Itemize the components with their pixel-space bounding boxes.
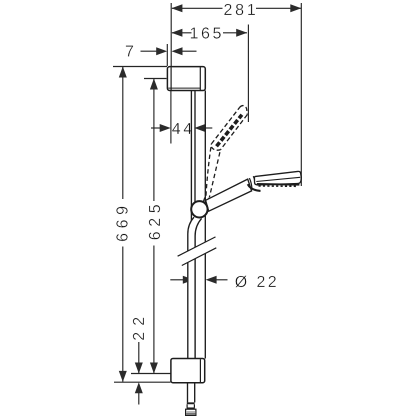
svg-text:669: 669 [115, 201, 132, 242]
svg-text:625: 625 [147, 200, 164, 241]
svg-text:281: 281 [223, 2, 258, 19]
svg-text:22: 22 [131, 311, 148, 341]
svg-text:Ø 22: Ø 22 [235, 274, 279, 291]
svg-text:165: 165 [190, 25, 225, 42]
svg-text:7: 7 [125, 43, 134, 60]
